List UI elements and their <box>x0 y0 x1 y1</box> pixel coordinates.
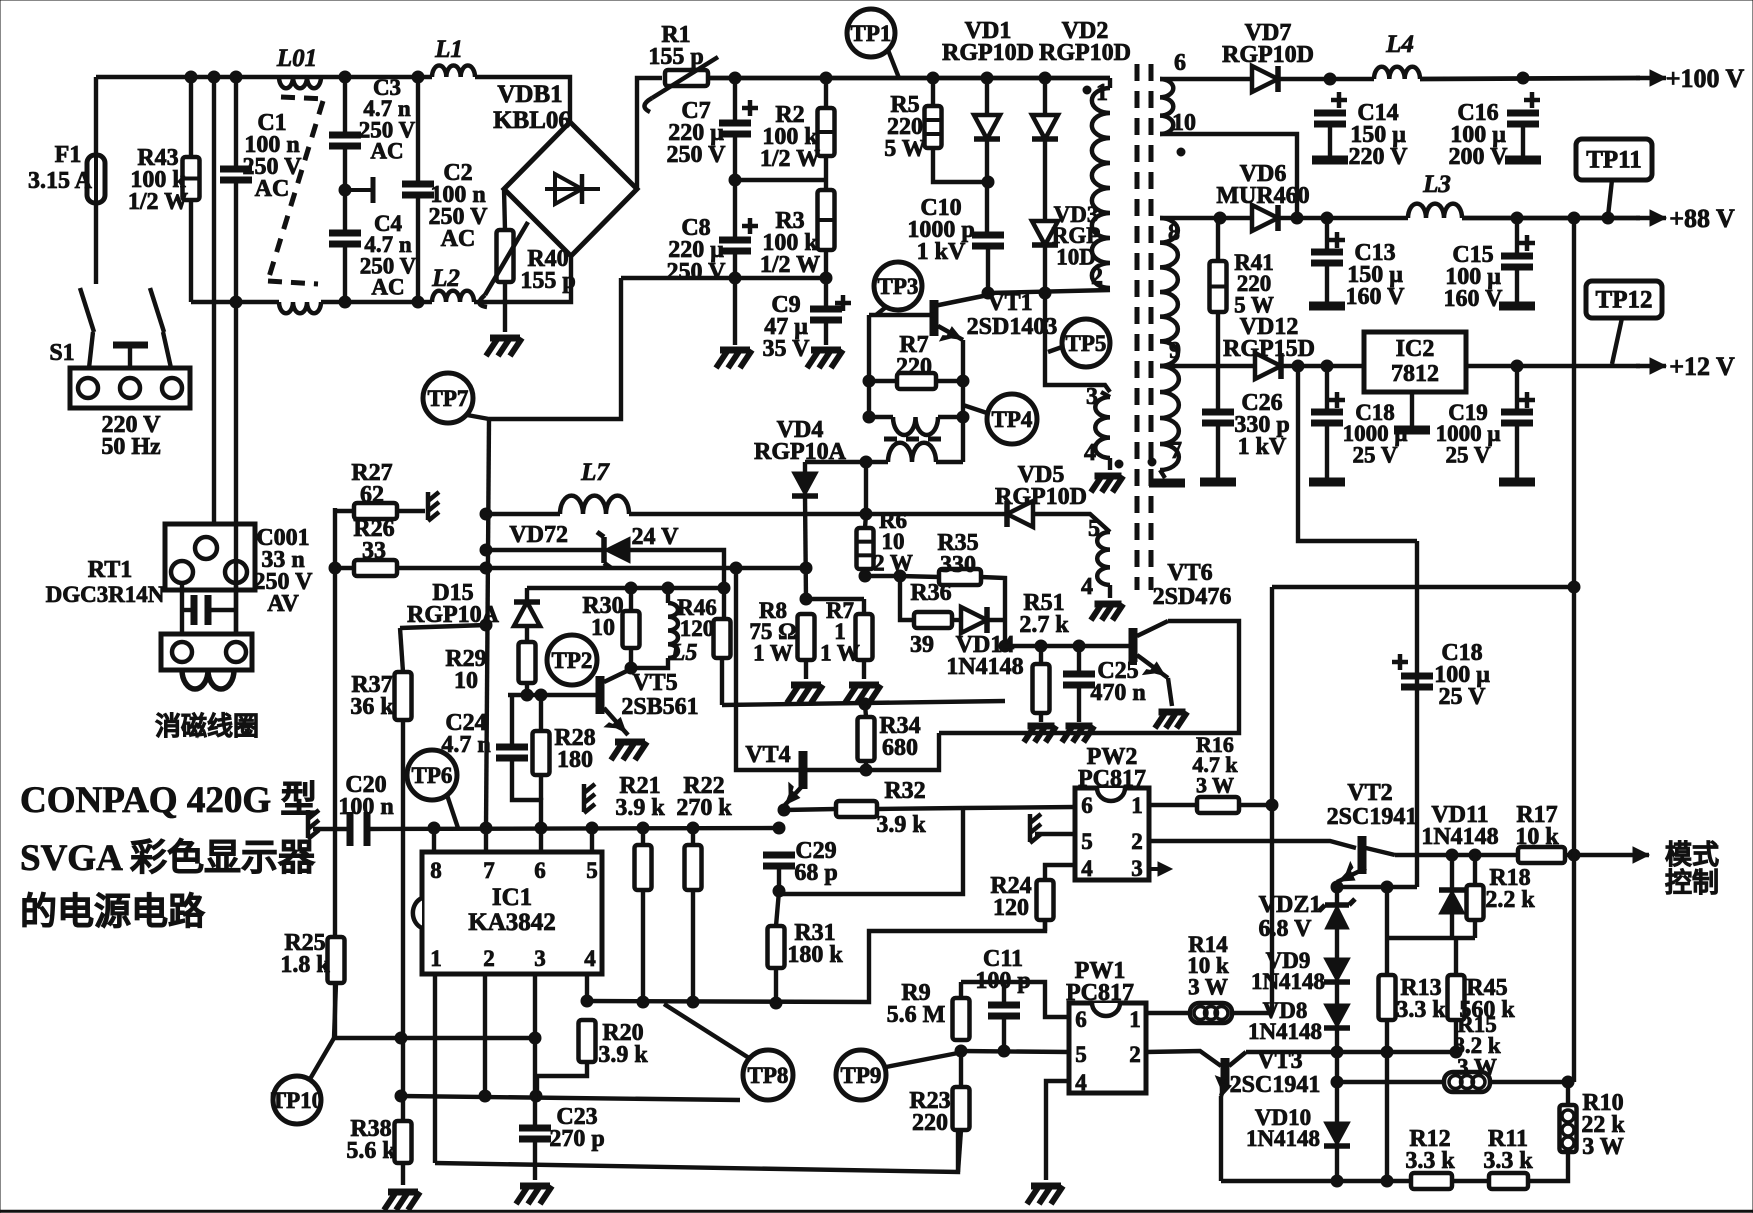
svg-text:RGP10D: RGP10D <box>1222 42 1314 68</box>
ground R38 <box>384 1192 420 1210</box>
wire rail100 <box>1420 78 1640 79</box>
degaussing coil <box>182 670 234 689</box>
wire R6 top <box>865 514 866 528</box>
svg-text:4: 4 <box>584 946 596 971</box>
test point TP5 <box>1062 319 1110 367</box>
transformer T1 core <box>1137 64 1151 590</box>
inductor L3 label <box>1422 171 1451 198</box>
diode VD3 <box>1032 221 1058 245</box>
diode VD6 label <box>1216 161 1309 209</box>
wire C1 top <box>234 77 238 169</box>
wire R14 right <box>1232 1011 1272 1015</box>
ground VT5 <box>611 742 647 760</box>
node emitter col <box>957 375 969 423</box>
resistor R30 label <box>582 593 623 641</box>
svg-text:220: 220 <box>896 354 932 380</box>
resistor R30 <box>623 611 640 648</box>
svg-text:IC1: IC1 <box>492 884 532 911</box>
zener VDZ1 <box>1319 899 1355 929</box>
varistor R40 <box>479 222 528 307</box>
wire pin4b stub <box>1108 585 1112 598</box>
svg-text:VT3: VT3 <box>1257 1048 1302 1074</box>
wire VD14 join <box>952 618 961 622</box>
wire x1574 lower <box>1572 587 1576 1082</box>
resistor R37 label <box>350 672 394 720</box>
diode VD12 <box>1255 353 1281 379</box>
wire pin6 PW2 <box>963 807 1075 808</box>
wire R18 top <box>1473 855 1477 885</box>
wire pin9 to VD12 <box>1160 364 1255 368</box>
resistor R22 <box>685 845 702 890</box>
svg-text:L3: L3 <box>1422 171 1451 198</box>
node R6 top <box>860 508 872 520</box>
wire C8 bottom <box>733 251 737 345</box>
wire PW1 pin2 to VT3 <box>1146 1051 1221 1066</box>
transformer pin6 label <box>1174 50 1186 76</box>
resistor R25 label <box>280 930 330 978</box>
svg-text:PC817: PC817 <box>1078 766 1146 792</box>
svg-text:2SC1941: 2SC1941 <box>1327 804 1418 830</box>
wire pin5 stub <box>1035 514 1110 532</box>
wire VD3 bottom <box>1043 245 1047 293</box>
wire R51 bus <box>1005 644 1130 648</box>
svg-text:33: 33 <box>362 538 386 564</box>
wire bottom long <box>435 1130 958 1172</box>
svg-text:5.6 M: 5.6 M <box>887 1002 946 1028</box>
svg-text:3.3 k: 3.3 k <box>1483 1148 1533 1174</box>
svg-text:1N4148: 1N4148 <box>1246 1126 1320 1151</box>
resistor R9 label <box>887 980 946 1028</box>
wire C10 bottom <box>986 246 990 293</box>
svg-text:50 Hz: 50 Hz <box>101 434 161 460</box>
svg-text:24 V: 24 V <box>632 524 680 550</box>
wire VD10 link <box>1335 1052 1339 1122</box>
capacitor C13 <box>1311 232 1345 263</box>
svg-text:VT4: VT4 <box>745 742 790 768</box>
capacitor C14 label <box>1349 100 1409 170</box>
svg-text:5 W: 5 W <box>884 136 926 162</box>
transistor VT1 <box>934 295 988 341</box>
svg-text:25 V: 25 V <box>1446 442 1491 467</box>
wire PW2 pin2 to VT2 <box>1149 841 1356 848</box>
wire C7 top <box>733 78 737 123</box>
svg-text:2: 2 <box>1091 264 1103 290</box>
inductor L2 label <box>431 265 460 292</box>
wire x486 vertical <box>486 419 489 828</box>
resistor R14 <box>1190 1003 1232 1023</box>
diode VD1 <box>974 115 1000 139</box>
wire pin4 stub <box>585 974 589 1001</box>
wire R41 top <box>1216 218 1220 261</box>
svg-text:10: 10 <box>591 615 615 641</box>
thermistor RT1 upper box <box>165 524 255 590</box>
capacitor C4 <box>329 233 361 244</box>
resistor R41 <box>1210 261 1227 312</box>
wire TP1 connector <box>888 50 899 78</box>
node R3 bottom <box>820 272 832 284</box>
node HV rail dots <box>729 72 1051 84</box>
thermistor RT1 label <box>46 557 165 607</box>
svg-text:AC: AC <box>371 274 404 299</box>
wire VD72 rail <box>486 548 604 552</box>
svg-text:1N4148: 1N4148 <box>1248 1019 1322 1044</box>
wire IC2 out <box>1466 364 1640 368</box>
resistor R18 <box>1467 885 1484 920</box>
capacitor C19 <box>1501 392 1535 423</box>
resistor R2 label <box>760 102 820 172</box>
test point TP2 <box>547 635 597 685</box>
wire R3 bottom <box>824 250 828 309</box>
transistor VT1 label <box>967 290 1058 340</box>
svg-text:120: 120 <box>680 616 715 641</box>
wire VT4 emitter node <box>782 806 786 810</box>
wire R37 top <box>400 628 403 672</box>
capacitor C18b label <box>1434 640 1490 710</box>
resistor R18 label <box>1485 865 1535 913</box>
resistor R37 <box>395 672 412 720</box>
optocoupler PW1 label <box>1066 958 1134 1006</box>
wire D15 horizontal <box>400 625 486 628</box>
optocoupler PW2 pin3 arrow <box>1149 862 1172 876</box>
resistor R32 label <box>884 778 925 804</box>
wire y982 <box>961 982 1069 1017</box>
wire VD2-VD3 <box>1043 139 1047 221</box>
transformer T1 secondary 8-9-7 <box>1160 218 1178 366</box>
resistor R21 label <box>615 773 665 821</box>
resistor R36 <box>914 612 952 628</box>
drive transformer winding lower <box>888 443 936 462</box>
wire TP11 connector <box>1608 180 1612 216</box>
diode VD10 label <box>1246 1105 1320 1151</box>
svg-text:CONPAQ 420G 型: CONPAQ 420G 型 <box>20 779 317 821</box>
wire VD9-VD8 <box>1335 982 1339 1004</box>
resistor R2 <box>818 108 835 156</box>
svg-text:3 W: 3 W <box>1457 1054 1497 1079</box>
node emitter net <box>1331 881 1393 893</box>
wire C9 bottom <box>824 320 828 345</box>
bridge VDB1 label <box>493 81 571 134</box>
fuse F1 label <box>28 142 93 194</box>
wire R21 bottom <box>641 890 645 1002</box>
wire R51 top <box>1039 646 1043 664</box>
svg-text:R36: R36 <box>910 580 951 606</box>
arrow mode ctl <box>1574 847 1649 863</box>
test point TP10 <box>271 1076 323 1124</box>
resistor R29 label <box>445 646 486 694</box>
resistor R32 value <box>876 812 926 838</box>
capacitor C26 label <box>1234 390 1289 460</box>
diode VD11 label <box>1421 802 1498 850</box>
capacitor C1 label <box>243 110 303 202</box>
wire C3 top <box>343 77 347 135</box>
svg-text:DGC3R14N: DGC3R14N <box>46 582 165 607</box>
wire VT5 base <box>508 693 598 697</box>
capacitor C2 label <box>429 160 489 252</box>
resistor R27 <box>354 503 397 519</box>
varistor R1 <box>644 57 718 112</box>
wire pin4 bus <box>587 920 1045 1002</box>
wire R23 bottom <box>958 1130 961 1172</box>
wire C11 top <box>1002 982 1006 1005</box>
diode VD5 <box>1007 501 1033 527</box>
svg-text:2SD1403: 2SD1403 <box>967 314 1058 340</box>
resistor R3 label <box>760 208 820 278</box>
svg-text:TP1: TP1 <box>851 21 892 46</box>
svg-text:1N4148: 1N4148 <box>1421 824 1498 850</box>
svg-text:2.7 k: 2.7 k <box>1019 612 1069 638</box>
bar C26 <box>1200 478 1236 487</box>
resistor R8 <box>798 614 815 660</box>
resistor R5 <box>925 106 942 148</box>
arrow +12V <box>1636 358 1666 374</box>
svg-text:1 kV: 1 kV <box>1238 434 1287 460</box>
svg-text:1/2 W: 1/2 W <box>760 146 820 172</box>
wire x214 down to RT1 <box>212 77 216 540</box>
svg-text:10D: 10D <box>1056 244 1096 269</box>
svg-text:L01: L01 <box>276 45 317 72</box>
resistor R43 <box>183 157 200 200</box>
capacitor C8 label <box>667 215 727 285</box>
capacitor C19 label <box>1436 400 1501 467</box>
diode VD7 label <box>1222 20 1314 68</box>
test point TP1 <box>847 9 895 57</box>
inductor L2 <box>432 291 474 302</box>
wire R1 to C7 node <box>708 76 1110 81</box>
capacitor C16 <box>1507 92 1540 124</box>
capacitor C23 label <box>549 1104 604 1152</box>
resistor R41 label <box>1234 250 1274 317</box>
wire C2 bottom <box>416 195 420 302</box>
svg-text:3.9 k: 3.9 k <box>876 812 926 838</box>
svg-text:L5: L5 <box>670 640 698 666</box>
wire R51 bottom <box>1039 713 1043 722</box>
svg-text:TP4: TP4 <box>992 407 1033 432</box>
optocoupler PW2 label <box>1078 744 1146 792</box>
label +100V <box>1666 64 1745 93</box>
svg-text:2: 2 <box>1129 1042 1141 1067</box>
svg-text:3 W: 3 W <box>1582 1134 1624 1160</box>
resistor R17 label <box>1515 802 1559 850</box>
wire R18 bottom <box>1473 920 1477 938</box>
node R6 bottom <box>859 570 906 582</box>
bridge rectifier VDB1 <box>504 122 637 256</box>
wire y1082 R15 <box>1337 1080 1444 1084</box>
transformer T1 secondary 6-10 <box>1160 79 1173 134</box>
wire C16 bottom <box>1521 124 1525 158</box>
wire collector node <box>988 290 1110 293</box>
wire R5 bottom <box>933 148 988 182</box>
resistor R24 label <box>990 873 1031 921</box>
test point TP7 <box>423 373 473 423</box>
wire VT4 base riser <box>736 568 799 770</box>
capacitor C10 <box>972 235 1004 246</box>
drive transformer core dashes <box>884 437 947 442</box>
svg-text:39: 39 <box>910 632 934 658</box>
wire C1 bottom <box>234 180 238 302</box>
capacitor C25 label <box>1090 658 1145 706</box>
svg-text:6: 6 <box>1075 1007 1087 1032</box>
wire C7 to C8 <box>733 134 737 240</box>
wire VDZ1 top <box>1335 887 1339 905</box>
capacitor C9 label <box>763 292 811 362</box>
node R26 branch <box>329 562 742 574</box>
wire winding lower left <box>805 460 888 464</box>
wire R7 right <box>936 379 963 383</box>
transformer pin8 label <box>1168 220 1180 246</box>
wire R2 bottom <box>824 156 828 190</box>
wire D15 to R29 <box>525 626 529 642</box>
inductor L5 label <box>670 640 698 666</box>
svg-text:TP6: TP6 <box>412 763 453 788</box>
wire C13 bottom <box>1325 263 1329 303</box>
wire R46 bottom <box>720 658 724 705</box>
transformer pin4b label <box>1081 574 1093 600</box>
wire F1 top <box>94 77 98 155</box>
wire R7b bottom <box>862 660 866 679</box>
node R15 out <box>1562 1076 1574 1088</box>
resistor R26 label <box>353 516 394 564</box>
diode VD3 label <box>1052 202 1101 269</box>
svg-text:680: 680 <box>882 735 918 761</box>
wire VD11 bottom <box>1450 914 1454 938</box>
resistor R6 label <box>873 508 913 575</box>
wire PW2 pin5 stub <box>1035 832 1075 836</box>
svg-text:+88 V: +88 V <box>1669 204 1735 233</box>
wire x866 down <box>864 462 868 514</box>
svg-text:RGP10D: RGP10D <box>942 40 1034 66</box>
wire VD3 line to pin3 <box>1045 345 1110 392</box>
resistor R45 <box>1448 975 1465 1020</box>
wire y278 left <box>621 276 826 280</box>
diode VD8 label <box>1248 998 1322 1044</box>
transformer pin10 label <box>1172 110 1196 156</box>
svg-text:2SB561: 2SB561 <box>621 694 698 720</box>
test point TP8 <box>743 1050 793 1100</box>
title line2 <box>20 837 316 879</box>
node R34 top <box>859 698 871 710</box>
node y588 <box>625 582 730 594</box>
bar pin7 <box>1149 479 1185 488</box>
resistor R46 label <box>677 595 717 641</box>
wire R43 bottom <box>189 200 193 302</box>
resistor R5 label <box>884 92 926 162</box>
ground C23 <box>516 1186 552 1204</box>
resistor R7 base <box>897 373 936 389</box>
wire C2 top <box>416 77 420 184</box>
svg-text:155 p: 155 p <box>520 268 575 294</box>
ticks y828 left <box>308 810 319 839</box>
resistor R34 label <box>879 713 920 761</box>
wire R13 bottom <box>1385 1020 1389 1181</box>
wire R29 bottom <box>525 683 529 695</box>
ground below C9 <box>807 350 843 368</box>
node VD8 out <box>1331 1046 1343 1058</box>
transformer pin3 label <box>1086 384 1098 410</box>
resistor R26 <box>354 560 397 576</box>
wire TP6 connector <box>447 795 458 828</box>
capacitor C18a label <box>1343 400 1408 467</box>
wire VT2 emitter <box>1335 882 1339 887</box>
connector RT1 lower box <box>161 634 252 670</box>
svg-text:3: 3 <box>534 946 546 971</box>
wire TP7 connector <box>467 415 489 419</box>
wire F1 to switch <box>94 203 98 284</box>
wire L7 to VD5 <box>629 512 1007 516</box>
resistor R7b <box>856 614 873 660</box>
wire VD14 out <box>987 618 1005 622</box>
svg-text:L2: L2 <box>431 265 460 292</box>
resistor R12 <box>1411 1173 1452 1189</box>
ground pin4b <box>1091 604 1123 620</box>
wire R9 top <box>959 982 963 998</box>
transformer pin2 label <box>1091 264 1103 290</box>
node VD1-R5 <box>982 176 994 188</box>
fuse F1 <box>87 155 105 203</box>
node y855 <box>1446 849 1481 861</box>
wire VD4 top <box>803 462 807 472</box>
ticks R27 <box>428 492 439 521</box>
node R17 out <box>1568 849 1580 861</box>
resistor R10 circles <box>1562 1110 1574 1149</box>
svg-text:VT6: VT6 <box>1167 560 1212 586</box>
svg-text:2SC1941: 2SC1941 <box>1230 1072 1321 1098</box>
resistor R38 <box>395 1121 412 1163</box>
wire winding lower right <box>936 460 963 464</box>
wire C29 bottom <box>776 866 779 926</box>
node rail88 <box>1511 212 1614 224</box>
transistor VT4 label <box>745 742 790 768</box>
svg-text:3: 3 <box>1131 856 1143 881</box>
wire R17 right <box>1565 853 1574 857</box>
resistor R7 label <box>896 332 932 380</box>
resistor R43 label <box>128 145 188 215</box>
capacitor C18a <box>1311 392 1345 423</box>
wire C001 right <box>207 608 236 612</box>
svg-text:TP2: TP2 <box>552 648 593 673</box>
diode VD14 <box>961 607 987 633</box>
wire IC2 gnd <box>1410 392 1414 428</box>
transformer pin4 label <box>1084 440 1123 468</box>
resistor R25 <box>328 937 345 983</box>
inductor L4 <box>1374 67 1420 79</box>
resistor R11 label <box>1483 1126 1533 1174</box>
svg-text:RGP10A: RGP10A <box>754 439 847 465</box>
resistor R28 <box>533 731 550 775</box>
wire PW2 pin4 <box>1045 865 1075 880</box>
node R51 bus <box>1035 640 1085 652</box>
transistor VT3 <box>1216 1052 1246 1098</box>
svg-text:AC: AC <box>370 138 403 163</box>
resistor R45 label <box>1459 975 1515 1023</box>
wire y1181 end <box>1528 1152 1568 1181</box>
resistor R21 <box>635 845 652 890</box>
node pin5 bus <box>955 1045 1010 1057</box>
svg-text:2.2 k: 2.2 k <box>1485 887 1535 913</box>
arrow +88V <box>1636 210 1666 226</box>
test point TP12 box <box>1586 281 1662 318</box>
capacitor C29 <box>763 855 795 866</box>
capacitor C26 <box>1202 412 1234 423</box>
node y828 bus <box>428 822 699 834</box>
svg-text:25 V: 25 V <box>1439 684 1487 710</box>
wire pin7 stub <box>484 828 488 852</box>
varistor R1 label <box>648 22 703 70</box>
wire R7 left <box>869 379 897 383</box>
svg-text:消磁线圈: 消磁线圈 <box>155 711 259 741</box>
ground VT6 <box>1155 712 1187 728</box>
wire R40 to ground <box>503 282 507 332</box>
diode VD10 <box>1324 1122 1350 1146</box>
